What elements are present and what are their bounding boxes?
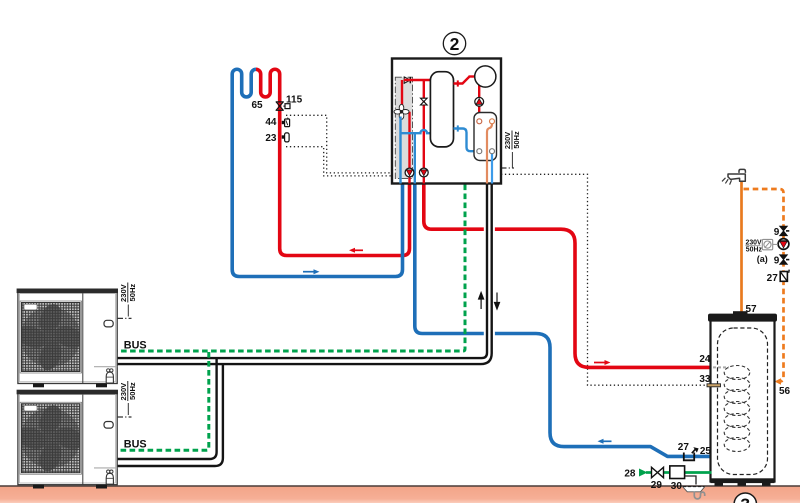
pipe stub dashes inside tank at port 24 [713,366,729,368]
flow arrow blue toward unit 2 [303,269,320,274]
plate heat exchanger [474,113,497,161]
expansion vessel [475,66,496,87]
svg-text:29: 29 [651,480,663,491]
svg-text:230V: 230V [119,283,128,302]
unit 2 cabinet [392,59,501,184]
mains label 230V 50Hz of heat pump 1 [118,283,138,319]
DHW circulation line, orange dashed [744,189,784,382]
floor [0,486,800,503]
DHW circulation pump [778,239,789,250]
refrigerant direction arrows up and down [479,293,500,310]
control wiring sensor 44 to unit 2, dotted [286,115,392,173]
fan symbol of refrigerant module [394,104,409,119]
refrigerant line pair, black, tee down to heat pump 2 [117,358,223,466]
svg-text:BUS: BUS [124,439,147,451]
shut-off valve 9 lower [780,255,790,265]
svg-text:230V: 230V [746,239,762,246]
hydraulic separator vessel [430,72,453,147]
svg-text:27: 27 [767,273,779,284]
mains label 230V 50Hz of circulation pump [745,239,778,253]
svg-text:28: 28 [624,469,636,480]
DHW loading return pipe, blue, tank port 25 to unit 2 [415,184,712,457]
refrigerant connections inside unit [487,124,492,184]
svg-text:50Hz: 50Hz [128,284,137,302]
svg-text:115: 115 [286,95,303,106]
BUS cable, green dashed, heat pump 1 to unit 2 [117,185,465,352]
svg-text:9: 9 [774,227,780,238]
red pipe vessel to expansion vessel and DHW pump [454,76,481,120]
check valve 27 on circulation line [780,270,789,282]
svg-text:44: 44 [265,117,277,128]
refrigerant line pair, black, unit 2 to heat pump 1 [117,184,492,365]
control wiring unit 2 to tank sensor 33, dotted [501,174,708,385]
check valve in module [404,77,410,83]
svg-text:65: 65 [252,100,264,111]
svg-text:50Hz: 50Hz [128,382,137,400]
svg-text:57: 57 [746,304,758,315]
svg-text:9: 9 [774,256,780,267]
flow arrow red toward tank [594,360,611,365]
motorised valve 115 on underfloor flow [276,102,290,110]
heating return pipe, blue, underfloor circuit to unit 2 [232,69,402,276]
DHW pipe, orange, tank to tap [740,181,743,318]
svg-text:30: 30 [671,481,683,492]
svg-text:24: 24 [699,354,711,365]
tank internal coil, dashed [724,366,750,452]
mains label 230V 50Hz of heat pump 2 [118,381,138,417]
svg-text:23: 23 [265,133,277,144]
svg-text:230V: 230V [119,382,128,401]
blue pipe vessel to plate heat exchanger [454,125,478,151]
drain funnel and trap [683,487,705,499]
red internal pipes [402,80,430,184]
svg-text:33: 33 [699,374,711,385]
svg-text:2: 2 [450,34,460,54]
heat exchanger ports [477,119,495,154]
sensor 44 on flow pipe [282,118,290,127]
svg-text:27: 27 [678,442,690,453]
mains label 230V 50Hz of unit 2 [501,131,521,169]
DHW cylinder tank [708,311,777,486]
refrigerant module, shaded [395,77,412,178]
safety group 30 [670,466,685,479]
feed arrow 28, green [639,469,648,477]
drain from safety group to funnel [685,476,696,485]
valve 27 on cold water inlet [684,447,699,460]
control wiring sensor 23 to unit 2, dotted [286,147,392,176]
heat pump 1 [14,289,118,388]
pump P1 [405,168,414,177]
svg-text:3: 3 [740,495,750,503]
svg-text:25: 25 [700,446,712,457]
svg-text:50Hz: 50Hz [746,247,763,254]
flow arrow red toward underfloor circuit [349,248,363,253]
tank sensor pocket 33 [707,384,721,387]
tap symbol [722,169,745,184]
pump P3 [475,97,484,106]
svg-text:56: 56 [779,386,791,397]
DHW loading flow pipe, red, unit 2 to tank port 24 [424,184,712,368]
valve on red pipe in unit 2 [421,98,428,105]
blue internal pipes with hop [401,117,431,184]
BUS cable, green dashed, heat pump 2 branch [117,352,209,450]
heating flow pipe, red, unit 2 to underfloor circuit [256,69,410,255]
cold water feed, green [646,471,712,474]
svg-text:(a): (a) [757,254,768,264]
svg-text:50Hz: 50Hz [512,131,521,149]
tank tag circle [734,493,756,503]
shut-off valve 9 upper [780,226,790,236]
flow arrow blue toward unit 2 [598,439,612,444]
svg-text:230V: 230V [503,132,512,149]
pump P2 [419,168,428,177]
shut-off valve 29 [652,467,664,477]
heat pump 2 [14,390,118,489]
sensor 23 on flow pipe [282,133,289,142]
svg-text:BUS: BUS [124,339,147,351]
tank inner lining, dashed [718,328,768,475]
unit 2 tag circle [443,32,465,54]
arrow into tank port 56 [775,378,782,385]
